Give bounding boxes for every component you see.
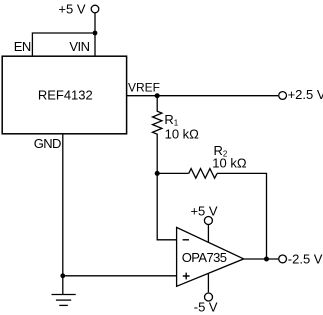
resistor R1 — [153, 96, 162, 174]
svg-text:GND: GND — [34, 136, 61, 151]
wire GND junction to ground symbol — [62, 276, 64, 295]
svg-text:REF4132: REF4132 — [38, 87, 93, 102]
feedback wire R2 to output node — [217, 173, 266, 259]
IC U1 REF4132 body — [2, 56, 126, 134]
junction VREF/R1 node — [155, 93, 160, 98]
inverting input minus sign — [183, 239, 189, 241]
junction GND/non-inverting node — [60, 273, 65, 278]
op-amp U2 OPA735 triangle — [177, 227, 244, 286]
junction +5V/EN node — [93, 31, 98, 36]
non-inverting input plus sign — [183, 273, 190, 280]
svg-text:-2.5 V: -2.5 V — [288, 252, 323, 267]
op-amp -5V supply terminal — [194, 274, 218, 315]
svg-text:OPA735: OPA735 — [182, 250, 227, 265]
ground symbol — [52, 295, 76, 306]
wire junction to EN pin — [32, 33, 95, 56]
wire VREF to +2.5V terminal — [126, 95, 278, 97]
wire node to R2 — [157, 172, 189, 174]
junction output/feedback — [264, 257, 269, 262]
wire +5V terminal to VIN pin — [94, 13, 96, 56]
wire op-amp output — [244, 258, 279, 260]
wire inverting node to inverting input — [157, 173, 176, 239]
svg-text:+2.5 V: +2.5 V — [288, 87, 323, 102]
svg-text:-5 V: -5 V — [194, 300, 218, 315]
svg-text:10 kΩ: 10 kΩ — [165, 127, 200, 142]
svg-text:EN: EN — [14, 39, 31, 54]
op-amp +5V supply terminal — [190, 204, 217, 242]
wire GND junction to non-inverting input — [63, 275, 177, 277]
junction R1/R2 inverting node — [155, 171, 160, 176]
svg-text:10 kΩ: 10 kΩ — [212, 155, 247, 170]
terminal -2.5 V output — [279, 252, 323, 267]
svg-text:VREF: VREF — [128, 80, 160, 94]
svg-text:VIN: VIN — [69, 39, 89, 54]
terminal +2.5 V output — [279, 87, 323, 102]
power terminal +5 V (top supply) — [58, 1, 98, 16]
pin wire GND (vertical) — [62, 134, 64, 276]
resistor R2 — [189, 169, 217, 179]
svg-text:+5 V: +5 V — [58, 1, 85, 16]
svg-text:+5 V: +5 V — [190, 204, 217, 219]
